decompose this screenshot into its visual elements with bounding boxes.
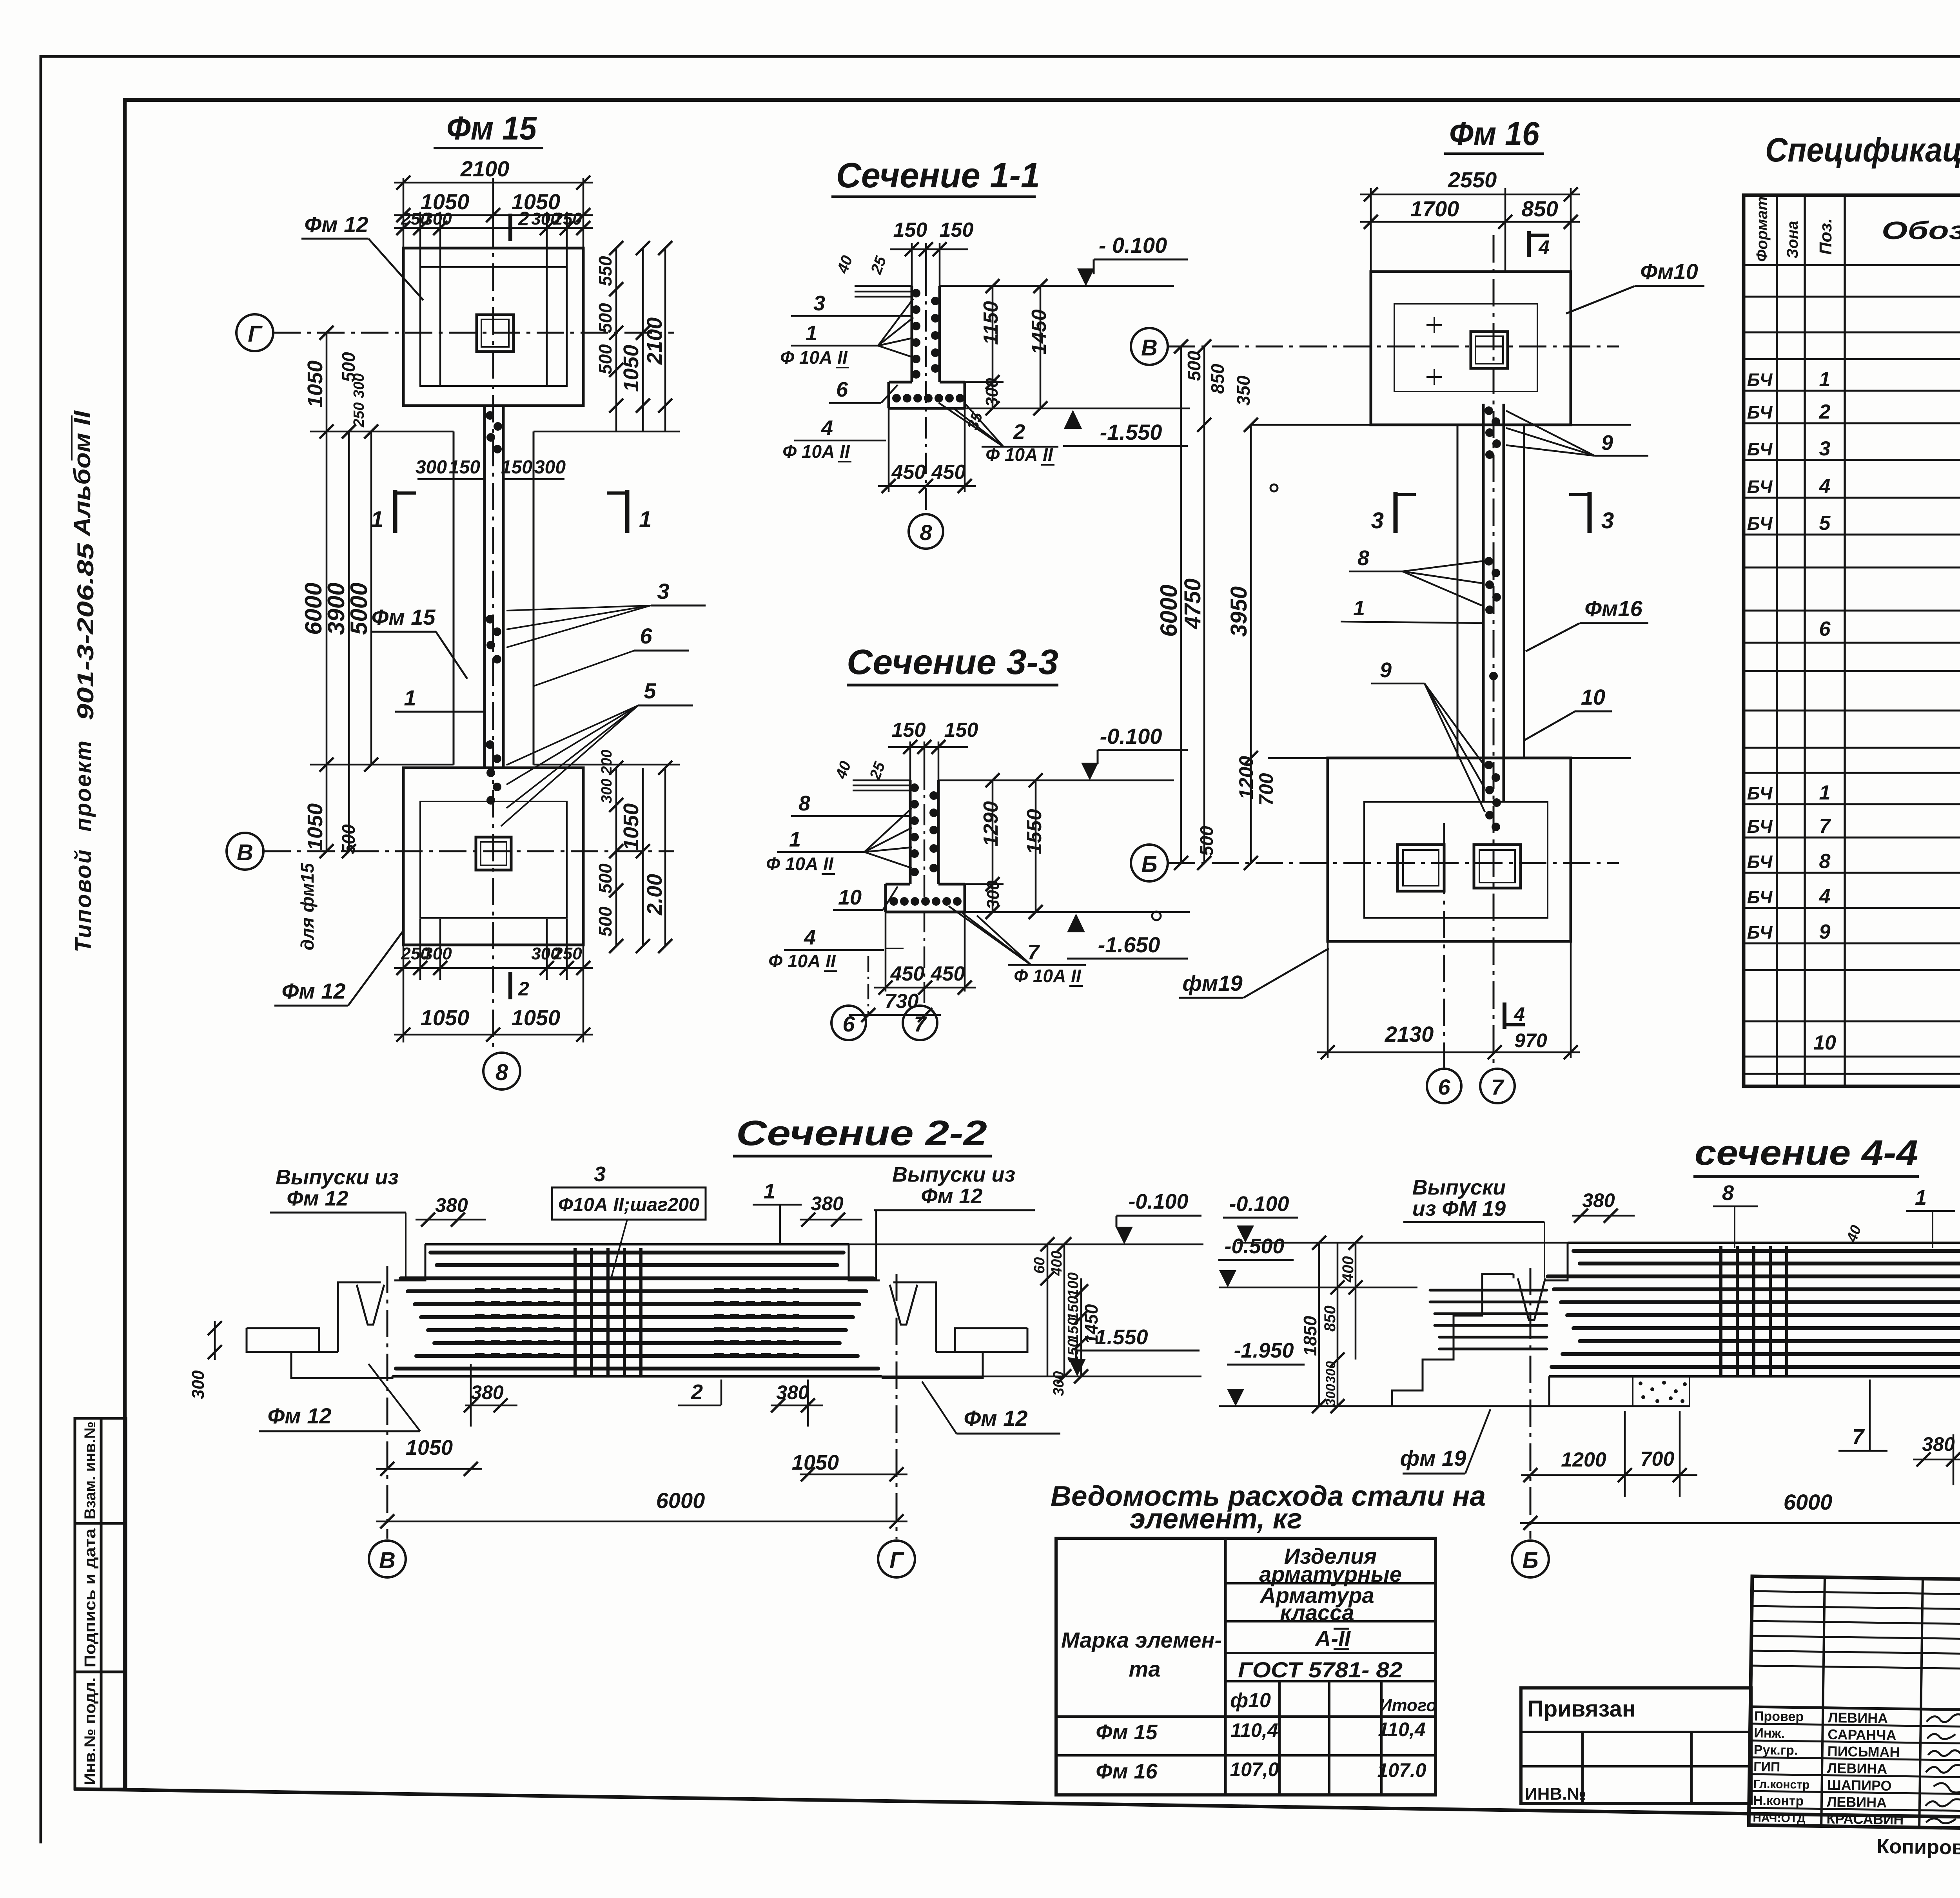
svg-text:Зона: Зона <box>1784 221 1801 259</box>
svg-text:Фм 15: Фм 15 <box>372 605 436 629</box>
svg-text:БЧ: БЧ <box>1747 783 1773 803</box>
top footing inner <box>1394 304 1537 392</box>
svg-text:ГОСТ 5781- 82: ГОСТ 5781- 82 <box>1238 1657 1403 1682</box>
bottom footing inner <box>420 801 567 918</box>
ground level lines <box>853 780 1190 912</box>
svg-text:150: 150 <box>1065 1318 1082 1342</box>
left margin stamp boxes <box>75 1418 126 1789</box>
dim 450 450 bottom <box>878 408 976 492</box>
svg-text:Ф 10А II: Ф 10А II <box>780 347 848 368</box>
axis G horizontal <box>273 332 674 334</box>
svg-text:3: 3 <box>594 1162 606 1186</box>
footing outlines <box>1328 272 1571 941</box>
svg-text:Сечение 1-1: Сечение 1-1 <box>836 156 1040 195</box>
svg-text:Подпись и дата: Подпись и дата <box>82 1528 99 1668</box>
inner frame bottom line (slanted scan) <box>76 1789 1960 1825</box>
svg-text:Поз.: Поз. <box>1816 218 1835 255</box>
right vertical dims 1150 1450 300 <box>940 286 1040 408</box>
axis bubble V <box>227 833 263 870</box>
svg-text:Выпуски из: Выпуски из <box>276 1166 399 1189</box>
svg-text:-0.100: -0.100 <box>1229 1192 1289 1216</box>
svg-text:ЛЕВИНА: ЛЕВИНА <box>1827 1794 1887 1811</box>
svg-text:1050: 1050 <box>619 345 643 392</box>
svg-text:-0.100: -0.100 <box>1100 724 1162 749</box>
svg-text:1: 1 <box>404 685 416 710</box>
svg-text:6: 6 <box>842 1012 855 1036</box>
svg-text:500: 500 <box>338 824 359 854</box>
svg-text:970: 970 <box>1514 1030 1547 1051</box>
svg-text:ЛЕВИНА: ЛЕВИНА <box>1828 1709 1888 1726</box>
svg-text:110,4: 110,4 <box>1378 1719 1425 1740</box>
svg-text:Типовой: Типовой <box>71 848 96 952</box>
svg-text:8: 8 <box>495 1060 508 1085</box>
svg-text:3: 3 <box>1601 508 1614 533</box>
signature rows labels <box>1753 1709 1811 1825</box>
wall rebar dots <box>910 783 938 876</box>
axis bubble G <box>878 1541 915 1577</box>
svg-text:1290: 1290 <box>980 801 1002 847</box>
svg-text:Альбом II: Альбом II <box>69 410 95 537</box>
svg-text:6: 6 <box>836 378 848 401</box>
svg-text:сечение 4-4: сечение 4-4 <box>1695 1133 1918 1173</box>
svg-text:6: 6 <box>1819 618 1831 640</box>
svg-text:Рук.гр.: Рук.гр. <box>1754 1742 1798 1758</box>
underline of Album II <box>71 415 73 460</box>
svg-text:7: 7 <box>1491 1075 1504 1099</box>
bottom column right <box>1474 845 1521 888</box>
steel table texts <box>1061 1544 1437 1783</box>
section mark 2 top <box>508 214 512 241</box>
svg-text:Фм 12: Фм 12 <box>305 212 368 237</box>
axis 7 vertical dash-dot <box>1493 235 1495 1068</box>
axis dash-dot verticals <box>1530 1268 1532 1539</box>
svg-text:6: 6 <box>1438 1075 1450 1099</box>
small underlines of 300-150 labels <box>417 478 484 480</box>
svg-text:3: 3 <box>813 292 825 315</box>
svg-text:из ФМ 19: из ФМ 19 <box>1412 1197 1506 1220</box>
svg-text:Н.контр: Н.контр <box>1753 1793 1804 1809</box>
footing rebar dots <box>889 897 962 906</box>
wall centerline <box>924 768 926 1003</box>
spec table grid <box>1744 195 1960 1086</box>
dimension/extension thin lines <box>310 178 680 1042</box>
svg-text:6000: 6000 <box>1784 1490 1833 1514</box>
axis bubble B <box>1131 845 1168 881</box>
svg-text:150: 150 <box>1065 1339 1082 1364</box>
svg-text:107,0: 107,0 <box>1230 1758 1279 1780</box>
svg-text:Выпуски из: Выпуски из <box>892 1163 1015 1186</box>
svg-text:3950: 3950 <box>1226 586 1252 637</box>
svg-text:Фм 12: Фм 12 <box>964 1406 1028 1430</box>
svg-text:В: В <box>1141 335 1158 361</box>
svg-text:БЧ: БЧ <box>1747 439 1773 459</box>
svg-text:7: 7 <box>1027 941 1040 964</box>
svg-text:БЧ: БЧ <box>1747 816 1773 837</box>
svg-text:Инв.№ подл.: Инв.№ подл. <box>82 1677 99 1785</box>
top column <box>1471 332 1508 368</box>
svg-text:Фм 15: Фм 15 <box>446 110 537 147</box>
svg-text:фм19: фм19 <box>1182 971 1242 995</box>
svg-text:Фм 16: Фм 16 <box>1096 1760 1158 1783</box>
svg-text:БЧ: БЧ <box>1747 402 1773 422</box>
svg-text:2.00: 2.00 <box>643 874 666 915</box>
svg-text:400: 400 <box>1339 1256 1357 1283</box>
rebar dots in strip <box>486 411 502 805</box>
axis bubble B <box>1512 1541 1549 1577</box>
svg-text:400: 400 <box>1049 1251 1065 1276</box>
svg-text:700: 700 <box>1255 773 1277 806</box>
svg-text:3: 3 <box>1371 508 1384 533</box>
svg-text:450: 450 <box>891 461 926 484</box>
svg-text:8: 8 <box>1819 850 1831 873</box>
svg-text:Копировал: Коршунова: Копировал: Коршунова <box>1877 1835 1960 1862</box>
svg-text:380: 380 <box>811 1193 844 1215</box>
section mark 3 left <box>1394 492 1398 533</box>
svg-text:1050: 1050 <box>512 1005 561 1030</box>
axis B horizontal <box>1168 862 1619 864</box>
axis bubble V <box>369 1541 406 1577</box>
svg-text:300: 300 <box>416 457 447 478</box>
svg-text:1450: 1450 <box>1081 1304 1102 1344</box>
svg-text:Сечение 3-3: Сечение 3-3 <box>847 643 1058 682</box>
svg-text:Фм 16: Фм 16 <box>1449 115 1540 152</box>
svg-text:300: 300 <box>423 944 452 963</box>
stray small circle <box>1152 912 1161 920</box>
axis bubbles 6 and 7 <box>831 1006 866 1040</box>
footing outline <box>886 884 965 912</box>
svg-text:КРАСАВИН: КРАСАВИН <box>1826 1811 1904 1828</box>
svg-text:1050: 1050 <box>421 1005 470 1030</box>
right vertical dims 1290 1550 300 <box>938 780 1036 912</box>
margin box labels <box>82 1421 99 1785</box>
dimension texts top <box>401 156 582 1030</box>
svg-text:1: 1 <box>1915 1186 1927 1209</box>
svg-text:Фм10: Фм10 <box>1640 259 1698 284</box>
wall outline <box>886 780 965 948</box>
bottom footing outer <box>1328 758 1571 941</box>
svg-text:- 0.100: - 0.100 <box>1099 233 1167 257</box>
svg-text:10: 10 <box>1581 685 1605 709</box>
svg-text:-1.650: -1.650 <box>1098 932 1160 957</box>
svg-text:Инж.: Инж. <box>1754 1726 1785 1741</box>
FM19 stepped mass left <box>1341 1243 1690 1406</box>
svg-text:1050: 1050 <box>303 803 327 850</box>
svg-text:850: 850 <box>1521 196 1558 221</box>
stirrups <box>1721 1246 1787 1376</box>
svg-text:Фм 15: Фм 15 <box>1096 1720 1158 1744</box>
section mark 4 bottom <box>1503 1002 1506 1029</box>
svg-text:1050: 1050 <box>406 1436 453 1459</box>
svg-text:Гл.констр: Гл.констр <box>1753 1778 1809 1791</box>
longitudinal rebar lines <box>396 1253 878 1369</box>
axis 6 vertical dash-dot <box>1443 823 1445 1068</box>
svg-text:Ф 10А II: Ф 10А II <box>1014 966 1082 986</box>
footing rebar dots <box>892 394 964 402</box>
svg-text:класса: класса <box>1280 1600 1354 1625</box>
footing outline <box>889 382 965 408</box>
svg-text:550: 550 <box>595 256 615 286</box>
svg-text:1: 1 <box>639 507 652 532</box>
svg-text:2100: 2100 <box>643 317 666 365</box>
svg-text:БЧ: БЧ <box>1747 852 1773 872</box>
rotated dimension texts left <box>297 352 372 950</box>
svg-text:1050: 1050 <box>303 361 327 408</box>
axis 8 vertical dash-dot <box>492 219 494 1053</box>
svg-text:4: 4 <box>804 926 816 949</box>
svg-text:5: 5 <box>644 678 656 703</box>
svg-text:2: 2 <box>1819 401 1831 423</box>
svg-text:БЧ: БЧ <box>1747 370 1773 390</box>
left margin vertical project text <box>69 410 98 952</box>
longitudinal rebar lines <box>1548 1251 1960 1367</box>
svg-text:150: 150 <box>940 219 974 241</box>
svg-text:250 300: 250 300 <box>351 373 367 428</box>
svg-text:Ф 10А II: Ф 10А II <box>768 951 836 971</box>
svg-text:2130: 2130 <box>1385 1022 1434 1046</box>
svg-text:1: 1 <box>1353 596 1365 620</box>
svg-text:1450: 1450 <box>1028 309 1051 355</box>
footing left step <box>886 912 904 948</box>
section mark 1 left <box>393 490 397 533</box>
svg-text:8: 8 <box>920 520 932 545</box>
svg-text:1050: 1050 <box>792 1451 839 1474</box>
svg-text:150: 150 <box>1065 1296 1082 1321</box>
footing outlines <box>403 248 583 945</box>
svg-text:2: 2 <box>518 978 529 1000</box>
svg-text:300: 300 <box>1323 1361 1338 1383</box>
svg-text:Ф 10А II: Ф 10А II <box>766 854 834 874</box>
svg-text:элемент, кг: элемент, кг <box>1130 1503 1302 1535</box>
spec header texts <box>1753 196 1960 262</box>
svg-text:Привязан: Привязан <box>1527 1696 1636 1722</box>
svg-text:1200: 1200 <box>1561 1448 1606 1471</box>
svg-text:8: 8 <box>1722 1181 1734 1205</box>
wall strip <box>1482 404 1485 802</box>
rebar dots in strip <box>1485 406 1501 831</box>
bottom footing inner <box>1364 802 1548 918</box>
svg-text:1: 1 <box>1819 781 1831 804</box>
top footing inner <box>420 267 567 386</box>
top footing outer <box>403 248 583 406</box>
svg-text:9: 9 <box>1380 658 1392 682</box>
svg-text:Б: Б <box>1522 1548 1538 1573</box>
svg-text:2100: 2100 <box>460 156 510 181</box>
svg-text:4: 4 <box>1514 1003 1525 1025</box>
svg-text:10: 10 <box>1813 1031 1836 1054</box>
svg-text:Формат: Формат <box>1753 196 1771 262</box>
mid base outline <box>453 431 455 765</box>
dim ticks <box>1174 187 1578 1059</box>
svg-text:7: 7 <box>1852 1425 1865 1448</box>
wall centerline <box>925 274 927 513</box>
svg-text:для фм15: для фм15 <box>297 863 318 950</box>
mid base outline <box>1457 425 1459 758</box>
dim 450 450 and 730 bottom <box>849 912 976 1015</box>
axis bubble 6 <box>1427 1069 1461 1103</box>
svg-text:901-3-206.85: 901-3-206.85 <box>73 543 98 720</box>
svg-text:5000: 5000 <box>346 583 372 635</box>
bottom footing outer <box>403 768 583 945</box>
svg-text:10: 10 <box>838 886 862 909</box>
dim texts top <box>1410 167 1558 221</box>
svg-text:ф10: ф10 <box>1230 1689 1271 1712</box>
svg-text:1850: 1850 <box>1300 1316 1320 1356</box>
lap splice dashed bars right <box>714 1289 799 1354</box>
bottom column <box>476 837 511 870</box>
svg-text:6000: 6000 <box>300 583 327 635</box>
svg-text:проект: проект <box>71 740 96 832</box>
svg-text:1150: 1150 <box>980 301 1002 345</box>
slab bottom chord <box>1549 1375 1960 1378</box>
svg-text:1: 1 <box>789 828 801 851</box>
svg-text:380: 380 <box>1922 1433 1955 1455</box>
svg-text:730: 730 <box>885 990 919 1013</box>
svg-text:300: 300 <box>982 378 1002 407</box>
svg-text:2: 2 <box>691 1380 703 1404</box>
svg-text:3900: 3900 <box>323 583 349 635</box>
svg-text:1050: 1050 <box>619 803 643 850</box>
svg-text:250: 250 <box>553 209 582 228</box>
axis bubble V <box>1131 328 1168 365</box>
svg-text:700: 700 <box>1641 1448 1675 1470</box>
svg-text:500: 500 <box>1184 351 1204 381</box>
svg-text:9: 9 <box>1601 431 1613 455</box>
svg-text:фм 19: фм 19 <box>1400 1446 1466 1470</box>
top column <box>477 315 514 352</box>
svg-text:2: 2 <box>518 208 529 230</box>
svg-text:-0.500: -0.500 <box>1224 1235 1284 1258</box>
svg-text:та: та <box>1129 1657 1161 1681</box>
svg-text:ШАПИРО: ШАПИРО <box>1827 1777 1892 1794</box>
rotated dim texts left <box>1156 351 1277 856</box>
svg-text:107.0: 107.0 <box>1377 1759 1426 1781</box>
svg-text:ЛЕВИНА: ЛЕВИНА <box>1827 1760 1887 1777</box>
svg-text:САРАНЧА: САРАНЧА <box>1828 1726 1896 1743</box>
svg-text:150: 150 <box>944 719 978 741</box>
svg-text:1200: 1200 <box>1235 756 1257 799</box>
svg-text:4: 4 <box>1819 885 1831 908</box>
svg-text:3: 3 <box>1819 437 1831 460</box>
section mark 4 top <box>1527 231 1531 257</box>
svg-text:380: 380 <box>776 1381 809 1403</box>
ground level lines <box>855 286 1190 408</box>
svg-text:150: 150 <box>501 457 532 478</box>
svg-text:300: 300 <box>984 880 1003 909</box>
svg-text:7: 7 <box>914 1012 927 1036</box>
axis dash-dot verticals <box>387 1266 388 1539</box>
svg-text:300 200: 300 200 <box>599 750 615 803</box>
top footing outer <box>1371 272 1571 425</box>
right dim ladder <box>1047 1244 1081 1376</box>
svg-text:6000: 6000 <box>656 1488 705 1513</box>
svg-text:ИНВ.№: ИНВ.№ <box>1525 1784 1586 1804</box>
A-II overbar <box>1334 1628 1349 1630</box>
svg-text:1700: 1700 <box>1410 196 1459 221</box>
section mark 2 bottom <box>508 972 512 999</box>
svg-text:Взам. инв.№: Взам. инв.№ <box>82 1421 99 1519</box>
svg-text:В: В <box>379 1548 396 1573</box>
concrete hatch patch <box>1633 1376 1690 1406</box>
svg-text:БЧ: БЧ <box>1747 887 1773 907</box>
svg-text:БЧ: БЧ <box>1747 513 1773 534</box>
bottom column left <box>1397 845 1444 891</box>
svg-text:НАЧ:ОТД: НАЧ:ОТД <box>1753 1811 1806 1825</box>
svg-text:4: 4 <box>1819 475 1831 498</box>
svg-text:300: 300 <box>189 1370 208 1399</box>
svg-text:2: 2 <box>1013 420 1025 444</box>
axis V horizontal <box>1168 346 1619 348</box>
svg-text:4: 4 <box>821 416 833 440</box>
svg-text:Спецификация монолитных фунд: Спецификация монолитных фундаментов <box>1765 131 1960 169</box>
svg-text:5: 5 <box>1819 512 1831 535</box>
svg-text:-0.100: -0.100 <box>1128 1190 1188 1213</box>
dimension thin lines <box>1181 188 1631 1058</box>
svg-text:300: 300 <box>1323 1384 1338 1406</box>
svg-text:ГИП: ГИП <box>1753 1759 1780 1775</box>
slab top chord <box>425 1243 849 1245</box>
svg-text:250: 250 <box>553 944 582 963</box>
svg-text:Сечение 2-2: Сечение 2-2 <box>736 1114 987 1153</box>
wall outline <box>889 286 965 408</box>
wall strip <box>483 406 486 768</box>
svg-text:8: 8 <box>1357 546 1369 570</box>
axis bubble 7 <box>1480 1069 1515 1103</box>
left dim ladder <box>1319 1243 1356 1406</box>
axis bubble 8 bottom <box>483 1053 520 1089</box>
svg-text:850: 850 <box>1321 1305 1339 1332</box>
svg-text:Г: Г <box>889 1548 904 1573</box>
svg-text:-1.550: -1.550 <box>1100 420 1162 444</box>
svg-text:6: 6 <box>640 624 652 648</box>
svg-text:60: 60 <box>1031 1257 1048 1274</box>
svg-text:Ф 10А II: Ф 10А II <box>782 441 850 462</box>
svg-text:3: 3 <box>657 579 669 604</box>
svg-text:300: 300 <box>1051 1371 1067 1396</box>
svg-text:500: 500 <box>595 344 615 374</box>
svg-text:150: 150 <box>449 457 480 478</box>
svg-text:Фм16: Фм16 <box>1584 596 1642 621</box>
svg-text:4: 4 <box>1538 236 1550 258</box>
svg-text:8: 8 <box>799 792 810 815</box>
svg-text:ПИСЬМАН: ПИСЬМАН <box>1828 1743 1900 1760</box>
svg-text:Провер: Провер <box>1754 1709 1804 1724</box>
right FM12 end block (mirror) <box>849 1244 1027 1378</box>
rotated dimension texts right <box>595 256 666 937</box>
svg-text:1: 1 <box>1819 368 1831 391</box>
svg-text:Выпуски: Выпуски <box>1412 1176 1506 1199</box>
svg-text:Итого: Итого <box>1379 1696 1437 1715</box>
svg-text:1: 1 <box>371 507 383 532</box>
axis V horizontal <box>263 850 674 852</box>
svg-text:В: В <box>237 840 253 865</box>
svg-text:Фм 12: Фм 12 <box>282 979 346 1003</box>
signature squiggles <box>1925 1714 1960 1824</box>
axis bubble G <box>236 314 273 351</box>
svg-text:500: 500 <box>595 906 615 937</box>
svg-text:Ф10А II;шаг200: Ф10А II;шаг200 <box>558 1195 699 1215</box>
svg-text:100: 100 <box>1065 1273 1082 1297</box>
svg-text:500: 500 <box>595 863 615 894</box>
vypuski stubs left <box>1430 1290 1547 1349</box>
svg-text:500: 500 <box>595 303 615 333</box>
svg-text:500: 500 <box>1196 826 1217 856</box>
stirrups <box>575 1248 641 1376</box>
svg-text:4750: 4750 <box>1180 578 1205 629</box>
svg-text:7: 7 <box>1819 815 1831 838</box>
dimension ticks <box>319 176 672 1042</box>
svg-text:Марка элемен-: Марка элемен- <box>1061 1628 1222 1652</box>
svg-text:450: 450 <box>890 963 925 985</box>
